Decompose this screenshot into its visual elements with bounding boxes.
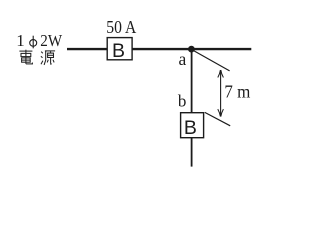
svg-text:B: B	[184, 117, 197, 139]
svg-text:a: a	[179, 49, 187, 69]
svg-text:1: 1	[16, 31, 25, 50]
svg-text:7 m: 7 m	[224, 82, 250, 102]
svg-text:2W: 2W	[40, 31, 63, 50]
svg-text:b: b	[178, 91, 187, 110]
svg-text:50 A: 50 A	[106, 17, 136, 37]
svg-text:B: B	[112, 40, 125, 62]
